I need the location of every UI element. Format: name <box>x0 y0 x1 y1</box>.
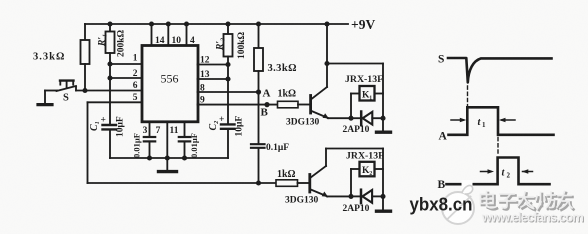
dimension arrows t2 <box>481 171 533 173</box>
label S waveform <box>438 54 444 66</box>
watermark www.elecfans.com <box>481 209 585 225</box>
node bottom junction dot <box>256 180 261 185</box>
capacitor C2 10uF <box>221 124 235 158</box>
switch S <box>38 81 76 105</box>
wire pin1 line <box>110 63 142 65</box>
transistor Q1 3DG130 upper <box>311 64 329 119</box>
diode D1 2AP10 <box>351 112 383 126</box>
label R2' <box>216 38 226 51</box>
label R1' <box>98 34 108 47</box>
label B <box>261 107 269 119</box>
wire collector node to relay right <box>327 64 383 131</box>
capacitor 0.1uF <box>251 144 265 183</box>
label A waveform <box>439 131 448 143</box>
pin label 11 <box>170 126 179 136</box>
wire emitter to diode lower <box>327 195 351 197</box>
label K2 <box>362 166 372 176</box>
wire long bottom A-drive <box>88 182 277 184</box>
value 0.01uF right <box>189 133 199 158</box>
char fa <box>520 194 536 211</box>
value 3.3kOhm right <box>268 63 297 74</box>
capacitor C1 10uF <box>103 78 117 158</box>
char you <box>557 192 572 209</box>
wire pin6 line to switch <box>76 90 142 92</box>
dashed edge A to B <box>497 138 499 157</box>
label plus C2 <box>219 115 224 125</box>
label 556 <box>161 72 179 86</box>
node collector junction <box>324 61 329 66</box>
ground main <box>159 158 177 172</box>
label A <box>263 88 271 100</box>
transistor Q2 3DG130 lower <box>310 149 328 197</box>
label JRX-13F upper <box>345 74 383 85</box>
resistor 3.3k right <box>254 24 263 92</box>
ground upper relay <box>377 130 391 133</box>
wire pin8 line <box>198 91 259 93</box>
label t2 <box>502 168 511 180</box>
wire pin2 line <box>110 77 142 79</box>
wire pin9 line <box>198 104 278 106</box>
label 3DG130 upper <box>286 118 320 128</box>
char zi <box>501 196 518 210</box>
watermark ybx8.cn <box>410 195 473 215</box>
wire pin12 line <box>198 64 229 66</box>
wire pin13 line <box>198 78 229 80</box>
pin stub 7 to ground <box>166 122 168 158</box>
wire pin5 left vertical down <box>87 102 89 183</box>
char shao <box>536 192 555 209</box>
node diode junction dots <box>348 116 385 121</box>
label t1 <box>478 117 487 129</box>
char you <box>559 193 574 210</box>
resistor 1k upper <box>278 101 310 108</box>
value 1kOhm lower <box>277 169 296 180</box>
waveform S <box>448 58 552 83</box>
wire +9V top rail <box>85 23 348 25</box>
wire collector to relay right lower <box>326 149 383 210</box>
pin labels 14 10 4 <box>155 36 195 46</box>
label C2 <box>208 120 219 130</box>
pin stub 14 <box>151 24 153 46</box>
pin label 3 <box>143 126 148 136</box>
capacitor 0.01uF pin11 <box>179 122 190 158</box>
waveform A pulse t1 <box>449 107 554 135</box>
node rail junction dots <box>107 21 329 26</box>
node B <box>264 102 269 107</box>
pin labels 12 13 8 9 <box>200 56 210 106</box>
char fa <box>518 192 534 209</box>
IC 556 box U1 <box>142 46 198 122</box>
dimension arrows t1 <box>451 119 515 121</box>
waveform B pulse t2 <box>447 158 550 185</box>
scan noise overlay <box>0 0 1 1</box>
label 3DG130 lower <box>285 196 319 206</box>
char dian <box>482 193 497 209</box>
resistor R1' 200k <box>106 24 115 78</box>
watermark chinese chars <box>482 193 574 210</box>
wire +9V drop to collector node <box>326 24 328 64</box>
label 2AP10 lower <box>343 204 370 214</box>
wire decoupling rail <box>110 157 228 159</box>
relay K1 JRX-13F <box>351 86 383 118</box>
label B waveform <box>438 179 446 191</box>
value 0.1uF <box>266 143 289 153</box>
value 0.01uF left <box>132 133 142 158</box>
pin labels 1 2 6 5 <box>133 53 138 103</box>
label plus C1 <box>101 116 106 126</box>
char zi <box>499 194 516 208</box>
resistor 3.3k left <box>81 24 90 91</box>
label S <box>63 93 69 104</box>
resistor 1k lower <box>276 180 309 187</box>
pin stub 4 <box>186 24 188 46</box>
value 200kOhm <box>117 29 127 57</box>
watermark logo white stem overlay <box>462 180 473 192</box>
diode D2 2AP10 <box>351 190 383 204</box>
value 100kOhm <box>237 31 247 59</box>
wire pin5 line <box>88 101 143 103</box>
wire A to cap vertical <box>258 92 260 143</box>
label 2AP10 upper <box>343 125 370 135</box>
node rail dots <box>147 155 187 160</box>
resistor R2' 100k <box>224 24 233 124</box>
label JRX-13F lower <box>346 151 384 162</box>
net +9V label <box>351 17 375 32</box>
char shao <box>538 194 557 211</box>
capacitor 0.01uF pin3 <box>144 122 155 158</box>
relay K2 JRX-13F <box>351 162 383 197</box>
node R1' junction dots <box>107 61 112 80</box>
node switch junction dot <box>82 88 87 93</box>
ground lower relay <box>377 209 391 212</box>
pin label 7 <box>156 126 161 136</box>
node pin12/13 dots <box>225 62 230 82</box>
label C1 <box>89 121 100 131</box>
pin stub 10 <box>167 24 169 46</box>
value 10uF C2 <box>235 116 245 137</box>
node A <box>256 89 261 94</box>
value 10uF C1 <box>116 116 126 137</box>
dashed edge S to A <box>467 86 469 106</box>
value label 3.3kOhm left <box>33 52 65 63</box>
wire emitter to diode <box>328 117 351 119</box>
node diode junction dots lower <box>348 194 385 199</box>
watermark logo circle <box>442 185 474 224</box>
char dian <box>481 192 496 208</box>
label K1 <box>362 91 372 101</box>
value 1kOhm upper <box>278 89 297 100</box>
